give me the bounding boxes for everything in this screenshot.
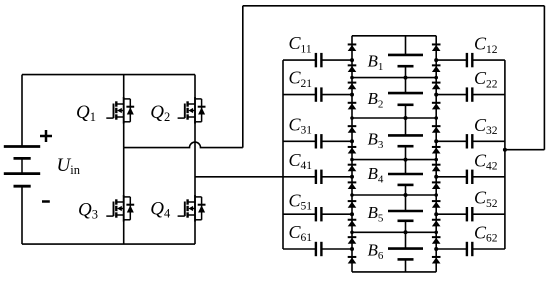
junction: right column tap 2 (434, 93, 438, 97)
wire: Q2 source / Q4 drain column (194, 123, 196, 197)
battery B4 (388, 160, 423, 195)
junction: left column tap 2 (350, 93, 354, 97)
capacitor C11 (283, 53, 352, 67)
wire: jog to right cap rail (505, 149, 545, 151)
junction: right column node 1 (434, 76, 438, 80)
diode right column lower cell 6 (432, 257, 441, 264)
diode right column lower cell 5 (432, 220, 441, 227)
diode left column lower cell 6 (348, 257, 357, 264)
junction: battery stub node 3 (404, 158, 408, 162)
wire: Q1 source down to node A (123, 123, 125, 148)
battery B5 (388, 195, 423, 232)
battery B6 (388, 232, 423, 272)
diode left column lower cell 3 (348, 147, 357, 154)
junction: right column tap 4 (434, 175, 438, 179)
diode left column upper cell 5 (348, 201, 357, 208)
diode left column upper cell 4 (348, 165, 357, 172)
junction: jog meets right cap rail (503, 148, 507, 152)
junction: left column tap 6 (350, 247, 354, 251)
wire: right capacitor rail (504, 60, 506, 249)
diode right column upper cell 6 (432, 237, 441, 244)
diode left column upper cell 1 (348, 44, 357, 51)
wire: left diode column (351, 36, 353, 272)
diode left column lower cell 5 (348, 220, 357, 227)
diode right column lower cell 1 (432, 65, 441, 72)
junction: left column node 5 (350, 231, 354, 235)
capacitor C52 (436, 207, 505, 221)
wire: Q1 drain (123, 75, 125, 99)
junction: right column tap 3 (434, 139, 438, 143)
junction: left column tap 5 (350, 212, 354, 216)
junction: left column node 4 (350, 193, 354, 197)
junction: left column tap 3 (350, 139, 354, 143)
wire: outer right rail (543, 6, 545, 150)
wire: node B (Q2/Q4 midpoint to left cap rail) (195, 176, 283, 178)
battery B1 (388, 36, 423, 78)
wire: outer top (243, 5, 545, 7)
capacitor C41 (283, 170, 352, 184)
battery + sign (40, 130, 52, 142)
junction: right column tap 6 (434, 247, 438, 251)
transistor Q4 (178, 195, 206, 221)
capacitor C51 (283, 207, 352, 221)
transistor Q3 (106, 195, 134, 221)
wire: left capacitor rail (282, 60, 284, 249)
diode right column upper cell 5 (432, 201, 441, 208)
capacitor C42 (436, 170, 505, 184)
wire: Q3 source to bottom rail (123, 221, 125, 245)
capacitor C21 (283, 87, 352, 101)
wire: right diode column (435, 36, 437, 272)
diode right column upper cell 4 (432, 165, 441, 172)
junction: right column node 4 (434, 193, 438, 197)
diode right column lower cell 4 (432, 182, 441, 189)
wire: Q2 drain (194, 75, 196, 99)
junction: left column node 3 (350, 158, 354, 162)
capacitor C62 (436, 242, 505, 256)
diode right column upper cell 2 (432, 83, 441, 90)
transistor Q2 (178, 97, 206, 123)
junction: right column tap 1 (434, 58, 438, 62)
wire: stack bottom line (352, 271, 436, 273)
junction: battery stub node 4 (404, 193, 408, 197)
junction: left column node 2 (350, 116, 354, 120)
diode left column upper cell 2 (348, 83, 357, 90)
wire: stack top line (352, 35, 436, 37)
wire: Q3 drain from node A (123, 148, 125, 197)
wire: node A with crossover hop (124, 142, 243, 148)
diode left column upper cell 6 (348, 237, 357, 244)
capacitor C22 (436, 87, 505, 101)
wire: + rail top-left down to battery (21, 75, 23, 148)
diode right column upper cell 1 (432, 44, 441, 51)
wire: Q4 source to bottom rail (194, 221, 196, 245)
diode left column lower cell 2 (348, 103, 357, 110)
battery - sign (42, 200, 50, 203)
diode right column lower cell 2 (432, 103, 441, 110)
wire: node line 1 (352, 77, 436, 79)
diode right column lower cell 3 (432, 147, 441, 154)
junction: left column tap 1 (350, 58, 354, 62)
transistor Q1 (106, 97, 134, 123)
diode right column upper cell 3 (432, 126, 441, 133)
diode left column upper cell 3 (348, 126, 357, 133)
wire: node line 4 (352, 194, 436, 196)
junction: right column node 2 (434, 116, 438, 120)
wire: node line 3 (352, 159, 436, 161)
capacitor C12 (436, 53, 505, 67)
battery B3 (388, 118, 423, 160)
junction: right column node 5 (434, 231, 438, 235)
capacitor C32 (436, 134, 505, 148)
capacitor C61 (283, 242, 352, 256)
wire: riser to top (242, 6, 244, 148)
junction: right column node 3 (434, 158, 438, 162)
wire: top (+) rail (22, 74, 195, 76)
wire: node line 2 (352, 117, 436, 119)
wire: bottom (-) rail (22, 243, 195, 245)
battery Uin plates (4, 147, 40, 187)
wire: node line 5 (352, 231, 436, 233)
capacitor C31 (283, 134, 352, 148)
junction: right column tap 5 (434, 212, 438, 216)
diode left column lower cell 1 (348, 65, 357, 72)
junction: battery stub node 2 (404, 116, 408, 120)
junction: left column node 1 (350, 76, 354, 80)
wire: battery - down to bottom rail (21, 186, 23, 244)
diode left column lower cell 4 (348, 182, 357, 189)
junction: left column tap 4 (350, 175, 354, 179)
junction: battery stub node 5 (404, 230, 408, 234)
junction: battery stub node 1 (404, 76, 408, 80)
battery B2 (388, 78, 423, 118)
